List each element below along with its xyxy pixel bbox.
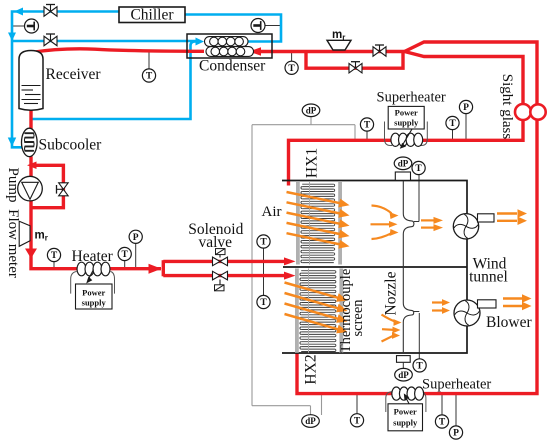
svg-text:T: T [260, 298, 267, 308]
T sensor (bottom superheater outlet) [435, 415, 448, 428]
P sensor (bottom superheater outlet) [449, 426, 462, 439]
red refrigerant piping [31, 42, 537, 394]
svg-text:dP: dP [398, 370, 409, 380]
chiller coolant supply line (top) [12, 12, 281, 148]
nozzle profile lower duct (Nozzle) [403, 267, 413, 353]
svg-text:Power: Power [82, 288, 105, 298]
HX1 heat exchanger coil [296, 182, 300, 265]
svg-text:Heater: Heater [72, 248, 114, 265]
svg-text:Sight glass: Sight glass [499, 74, 515, 140]
svg-text:HX1: HX1 [304, 148, 321, 178]
svg-text:Pump: Pump [5, 167, 21, 202]
dP sensor (upper nozzle) [394, 157, 412, 170]
superheater (top) [385, 122, 428, 146]
T sensor (liquid line) [142, 69, 155, 82]
svg-text:screen: screen [350, 299, 366, 337]
svg-text:T: T [415, 164, 422, 174]
chiller box [119, 7, 185, 23]
solenoid valve 1 [213, 257, 228, 266]
valve V1 on chiller supply [44, 7, 57, 17]
T sensor (condenser inlet) [285, 61, 298, 74]
m_r flow meter (condenser line) [327, 40, 351, 50]
svg-text:T: T [416, 362, 423, 372]
T sensor (HX2 outlet line) [350, 414, 363, 427]
P sensor (superheater outlet) [459, 100, 472, 113]
svg-text:Condenser: Condenser [199, 58, 266, 75]
superheater (bottom) [386, 392, 426, 412]
svg-text:dP: dP [305, 416, 316, 426]
T sensor (HX1 feed) [257, 235, 270, 248]
sight glass 1 [515, 104, 531, 120]
pump [18, 176, 43, 201]
svg-text:valve: valve [199, 234, 233, 251]
svg-text:Superheater: Superheater [377, 90, 446, 106]
T sensor (pump discharge) [47, 248, 60, 261]
valve V4 on bypass line [349, 63, 362, 72]
svg-text:supply: supply [394, 118, 419, 128]
condenser shell and coils [205, 37, 249, 47]
svg-text:T: T [439, 418, 446, 428]
air flow arrows through HX2 [285, 283, 339, 330]
svg-text:HX2: HX2 [303, 354, 320, 384]
svg-text:P: P [453, 429, 459, 439]
heater coil and power supply [71, 272, 115, 294]
receiver vessel [19, 51, 43, 111]
nozzle tap box upper [395, 172, 410, 180]
svg-text:T: T [354, 417, 361, 427]
svg-text:T: T [51, 251, 58, 261]
svg-text:Power: Power [395, 108, 418, 118]
air flow arrows through HX1 [287, 192, 341, 244]
svg-text:T: T [449, 119, 456, 129]
blower outlet arrows upper [497, 214, 517, 221]
sight glass 2 [530, 104, 545, 119]
T sensor (superheater inlet) [360, 118, 373, 131]
flow meter cone [19, 221, 30, 246]
red flow arrows [249, 47, 261, 56]
svg-text:dP: dP [306, 105, 317, 115]
svg-text:P: P [463, 103, 469, 113]
HX2 heat exchanger coil [295, 269, 299, 353]
T sensor (upper nozzle) [412, 161, 425, 174]
arrows after upper nozzle [421, 220, 434, 227]
T sensor (heater outlet) [118, 247, 131, 260]
blower lower [454, 300, 480, 326]
svg-text:Air: Air [262, 204, 282, 220]
temperature sensor T (condenser coolant out) [251, 19, 265, 33]
svg-text:Superheater: Superheater [422, 377, 491, 393]
nozzle tap box lower [397, 356, 411, 363]
svg-text:T: T [146, 72, 153, 82]
svg-text:T: T [122, 250, 129, 260]
valve V3 on condenser inlet line [373, 47, 386, 57]
svg-text:Receiver: Receiver [46, 66, 102, 83]
pump relief valve V5 [59, 183, 69, 196]
svg-text:Chiller: Chiller [130, 7, 174, 24]
svg-text:dP: dP [398, 158, 409, 168]
dP sensor (HX differential) [302, 104, 320, 117]
T sensor (lower nozzle) [413, 359, 426, 372]
svg-text:Blower: Blower [486, 314, 532, 331]
nozzle profile upper duct [403, 181, 414, 268]
dP sensor (HX2 outlet) [302, 415, 320, 428]
valve V2 on condenser coolant line [44, 36, 57, 46]
blower outlet arrows lower [503, 299, 522, 307]
subcooler [22, 128, 38, 156]
T sensor (superheater outlet) [446, 116, 459, 129]
svg-text:supply: supply [82, 298, 107, 308]
svg-text:Subcooler: Subcooler [39, 137, 103, 154]
svg-text:T: T [364, 121, 371, 131]
instrument stem lines [12, 26, 466, 427]
svg-text:T: T [260, 238, 267, 248]
solenoid valve 2 [213, 271, 228, 280]
svg-text:Power: Power [394, 407, 417, 417]
dP tap line network (HX differential pressure) [252, 117, 355, 416]
converging arrows into upper nozzle [371, 206, 392, 240]
T sensor (HX2 feed) [257, 295, 270, 308]
blower upper [453, 214, 478, 239]
svg-text:Nozzle: Nozzle [383, 271, 400, 315]
P sensor (heater outlet) [129, 230, 142, 243]
svg-text:P: P [133, 233, 139, 243]
temperature sensor T (chiller return) [25, 19, 39, 33]
svg-text:supply: supply [393, 418, 418, 428]
coolant flow arrows [14, 8, 23, 16]
svg-text:tunnel: tunnel [469, 269, 508, 286]
converging arrows into lower nozzle [382, 315, 397, 342]
dP sensor (lower nozzle) [395, 368, 413, 381]
arrows after lower nozzle [432, 303, 444, 311]
svg-text:T: T [288, 64, 295, 74]
svg-text:Flow meter: Flow meter [5, 209, 21, 278]
wind tunnel walls [282, 181, 467, 354]
